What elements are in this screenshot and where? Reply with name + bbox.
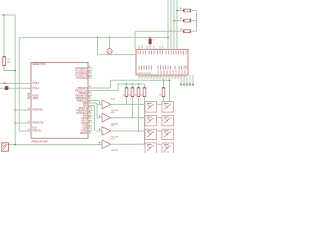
junction dot (132.5,117.7) <box>132 117 134 119</box>
crystal Q1 <box>5 86 8 90</box>
wire gate3 input stub <box>97 130 103 132</box>
gate IC2D triangle <box>102 140 111 149</box>
svg-text:74C07N: 74C07N <box>111 150 119 152</box>
wire IC1 left pin y131 <box>19 130 31 132</box>
IC1 right pin stub y118.0 <box>88 117 92 119</box>
wire R5 bottom lead to row 4 <box>144 96 146 144</box>
wire gate1 output <box>111 103 145 105</box>
IC3 bottom pin stub x166 <box>165 75 167 79</box>
svg-text:R1: R1 <box>7 59 9 61</box>
wire horizontal y70.5 <box>4 70 15 72</box>
IC IC3 body <box>136 49 188 75</box>
IC3 top pin name dashes <box>137 51 140 55</box>
wire pin y105.5 to gate3 <box>92 105 95 107</box>
svg-text:IC2B: IC2B <box>111 112 116 114</box>
connector SV1 pin 2 pad <box>183 84 185 86</box>
IC3 bottom pin stub x139 <box>138 75 140 79</box>
junction dot (171,31.2) <box>170 30 172 32</box>
svg-text:ATMEGA8-16PI: ATMEGA8-16PI <box>32 140 49 143</box>
wire R6 top lead <box>163 80 165 88</box>
IC3 bottom pin stub x178 <box>177 75 179 79</box>
wire net B from pin y90.5 <box>92 90 118 92</box>
connector SV1 pin 3 pad <box>186 84 188 86</box>
junction dot (126.5,104.4) <box>126 104 128 106</box>
wire net B bus y84 <box>118 83 145 85</box>
junction dot (97.5,37.4) <box>97 37 99 39</box>
IC1 left pin stub y96 <box>27 95 31 97</box>
IC1 right pin stub y108.0 <box>88 107 92 109</box>
svg-text:XTAL2: XTAL2 <box>32 87 40 90</box>
wire gate4 input stub <box>97 143 103 145</box>
junction dot (169.5,80.2) <box>169 79 171 81</box>
resistor R4 <box>137 88 140 97</box>
IC3 top pin stub x160 <box>159 46 161 50</box>
svg-text:1k: 1k <box>159 94 161 96</box>
wire pin y100.5 to gate1 <box>92 100 100 102</box>
wire XTAL2 y88.3 right <box>8 87 31 89</box>
wire between opto row1 <box>157 103 162 105</box>
wire between opto row4 <box>157 143 162 145</box>
junction dot (177,10.5) <box>176 10 178 12</box>
wire between opto row2 <box>157 117 162 119</box>
wire stub to oscillator <box>109 37 111 48</box>
IC3 bottom pin stub x151 <box>150 75 152 79</box>
svg-text:IC2A: IC2A <box>111 98 116 101</box>
wire R4 bottom lead to row 3 <box>138 96 140 131</box>
wire row1 right <box>190 10 196 12</box>
IC1 right pin numbers <box>89 66 90 67</box>
junction dot (163.5,80.2) <box>163 79 165 81</box>
junction dot (15.2,110) <box>14 109 16 111</box>
wire bottom long net y144.6 <box>8 144 102 146</box>
junction dot (109.5,37.4) <box>109 37 111 39</box>
IC3 bottom pin stub x148 <box>147 75 149 79</box>
IC1 right pin stub y120.5 <box>88 120 92 122</box>
opto OK6 right column <box>162 115 174 125</box>
opto OK5 right column <box>162 102 174 112</box>
resistor R3 <box>131 88 134 97</box>
wire between opto row3 <box>157 130 162 132</box>
svg-text:IC2C: IC2C <box>111 125 116 127</box>
wire gate2 input stub <box>97 117 103 119</box>
IC1 right pin stub y95.5 <box>88 95 92 97</box>
junction dot (15.2,70.5) <box>14 70 16 72</box>
wire vertical x135 to IC3 <box>134 31 136 49</box>
wire top vertical x177 <box>176 0 178 49</box>
wire XTAL2 y88.3 left <box>0 87 5 89</box>
svg-text:PD0(RXD): PD0(RXD) <box>32 110 43 112</box>
svg-text:PD4(T0): PD4(T0) <box>32 131 41 133</box>
IC1 right pin stub y103.0 <box>88 102 92 104</box>
wire oscillator bottom <box>109 53 111 56</box>
resistor R7 <box>184 9 191 12</box>
IC1 right pin stub y88.0 <box>88 87 92 89</box>
IC3 bottom pin stub x175 <box>174 75 176 79</box>
wire left stub opto row4 <box>141 143 146 145</box>
wire row2 right <box>190 20 196 22</box>
wire R4 top lead <box>138 84 140 88</box>
junction dot at (4,15) <box>3 14 5 16</box>
wire vertical x19.2 <box>18 37 20 131</box>
IC1 left pin numbers <box>28 94 29 95</box>
IC1 right pin stub y115.5 <box>88 115 92 117</box>
connector SV1 pin 4 pad <box>189 84 191 86</box>
junction dot (126.5,84) <box>126 83 128 85</box>
IC1 right pin stub y128.0 <box>88 127 92 129</box>
wire row2 left <box>174 20 184 22</box>
opto OK8 right column <box>162 143 174 153</box>
wire R6 bottom lead <box>163 96 165 101</box>
wire net A horizontal y80.2 <box>111 79 170 81</box>
wire left stub opto row1 <box>141 103 146 105</box>
IC1 right pin stub y110.5 <box>88 110 92 112</box>
opto OK3 left column <box>145 129 157 139</box>
junction dot (132.5,84) <box>132 83 134 85</box>
IC3 top pin stub x147 <box>146 46 148 50</box>
wire gate1 input stub <box>97 103 103 105</box>
IC3 bottom pin stub x160 <box>159 75 161 79</box>
IC1 right pin stub y78 <box>88 77 92 79</box>
wire bus y37.4 <box>19 36 168 38</box>
svg-text:PC4(SDA): PC4(SDA) <box>77 77 88 80</box>
IC3 bottom pin name dashes <box>138 66 141 70</box>
svg-text:(RESET)PC6: (RESET)PC6 <box>32 64 46 66</box>
IC IC1 body <box>31 62 88 138</box>
wire top vertical x168 <box>167 0 169 49</box>
IC3 top pin stub x163 <box>162 46 164 50</box>
connector SV1 pin 1 wire <box>180 75 182 84</box>
connector X1 body <box>2 143 9 151</box>
junction dot (174,20.6) <box>173 20 175 22</box>
svg-text:XTAL1: XTAL1 <box>32 82 40 85</box>
resistor R9 <box>184 30 191 33</box>
IC3 bottom pin stub x154 <box>153 75 155 79</box>
wire R2 top lead <box>126 84 128 88</box>
svg-text:C1: C1 <box>153 40 155 42</box>
IC1 right pin stub y130.5 <box>88 130 92 132</box>
svg-text:AREF: AREF <box>32 97 39 100</box>
IC3 bottom pin stub x163 <box>162 75 164 79</box>
resistor R8 <box>184 19 191 22</box>
wire IC1 left pin y110 <box>15 109 31 111</box>
wire vertical x97.5 <box>97 37 99 54</box>
junction dot (168,37.4) <box>167 37 169 39</box>
connector SV1 pin 2 wire <box>183 75 185 84</box>
opto OK2 left column <box>145 115 157 125</box>
resistor R1 <box>3 57 6 66</box>
svg-text:1k: 1k <box>129 94 131 96</box>
wire left stub opto row3 <box>141 130 146 132</box>
label tick Q1 <box>4 83 6 84</box>
IC1 right pin stub y90.5 <box>88 90 92 92</box>
IC1 right pin stub y105.5 <box>88 105 92 107</box>
junction dot (150,37.4) <box>149 37 151 39</box>
wire pin y103 to gate2 <box>92 102 97 104</box>
svg-text:10k: 10k <box>180 29 183 31</box>
IC1 right pin stub y123.0 <box>88 122 92 124</box>
resistor R5 <box>143 88 146 97</box>
IC1 right pin stub y93.0 <box>88 92 92 94</box>
wire R1 bottom lead <box>3 65 5 70</box>
wire net A vertical x110.5 <box>110 80 112 88</box>
connector SV1 pin 5 pad <box>192 84 194 86</box>
wire x169.5 down to opto1 top <box>169 80 171 102</box>
wire row1 left <box>177 10 184 12</box>
svg-text:1k: 1k <box>141 94 143 96</box>
IC1 left pin stub y93.5 <box>27 93 31 95</box>
wire gate4 output <box>111 143 145 145</box>
IC1 left pin stub y98.5 <box>27 98 31 100</box>
svg-text:1k: 1k <box>123 94 125 96</box>
wire R2 bottom lead to row 1 <box>126 96 128 104</box>
IC3 top pin stub x154 <box>153 46 155 50</box>
wire R3 top lead <box>132 84 134 88</box>
connector SV1 pin 1 pad <box>180 84 182 86</box>
wire gate2 output <box>111 117 145 119</box>
IC3 bottom pin name dashes row2 <box>157 70 160 73</box>
IC3 top pin stub x139 <box>138 46 140 50</box>
wire top vertical x174 <box>173 0 175 49</box>
wire stub below opto8 <box>162 151 169 153</box>
wire net A from pin y88 <box>92 87 111 89</box>
wire R3 bottom lead to row 2 <box>132 96 134 117</box>
IC3 bottom pin stub x145 <box>144 75 146 79</box>
svg-text:10k: 10k <box>180 18 183 20</box>
gate IC2C triangle <box>102 127 111 136</box>
wire row3 right <box>190 30 196 32</box>
svg-text:PD3: PD3 <box>32 128 37 130</box>
svg-text:10k: 10k <box>7 62 10 64</box>
junction dot (138.5,131.0) <box>138 130 140 132</box>
wire row3 long left extension <box>135 30 171 32</box>
junction dot (138.5,84) <box>138 83 140 85</box>
wire bus y54.6 <box>98 54 137 56</box>
IC1 right pin stub y113.0 <box>88 112 92 114</box>
svg-text:1k: 1k <box>135 94 137 96</box>
wire vertical to R1 <box>3 15 5 57</box>
resistor R6 <box>162 88 165 97</box>
wire C1 top lead <box>149 37 151 38</box>
opto OK7 right column <box>162 129 174 139</box>
connector SV1 pin 4 wire <box>189 75 191 84</box>
IC3 top pin stub x142 <box>141 46 143 50</box>
gate IC2A triangle <box>102 100 111 109</box>
wire IC1 left pin y123 <box>15 122 31 124</box>
wire net top-left horizontal <box>1 14 15 16</box>
gate IC2B triangle <box>102 113 111 122</box>
connector X1 inner marks <box>3 144 8 150</box>
wire right vertical x196.5 <box>196 11 198 32</box>
IC3 bottom pin stub x169 <box>168 75 170 79</box>
junction dot (15.2,144.6) <box>14 144 16 146</box>
wire gate3 output <box>111 130 145 132</box>
IC1 right pin stub y100.5 <box>88 100 92 102</box>
wire left stub opto row2 <box>141 117 146 119</box>
wire row3 left <box>171 30 184 32</box>
wire XTAL1 y83.4 <box>0 82 31 84</box>
opto OK1 left column <box>145 102 157 112</box>
IC1 right pin stub y98.0 <box>88 97 92 99</box>
wire top vertical x171 <box>170 0 172 49</box>
svg-text:PD2(INT0): PD2(INT0) <box>32 123 43 125</box>
IC1 right pin stub y133.0 <box>88 132 92 134</box>
capacitor C1 <box>149 39 152 45</box>
connector SV1 pin 3 wire <box>186 75 188 84</box>
IC3 bottom pin stub x142 <box>141 75 143 79</box>
opto OK4 left column <box>145 143 157 153</box>
IC1 right pin stub y68 <box>88 67 92 69</box>
svg-text:IC2D: IC2D <box>111 139 116 141</box>
svg-text:10k: 10k <box>180 8 183 10</box>
IC1 right pin stub y75.5 <box>88 75 92 77</box>
IC3 bottom pin stub x157 <box>156 75 158 79</box>
wire net B vertical x118 <box>117 84 119 91</box>
IC1 right pin stub y73 <box>88 72 92 74</box>
svg-text:AREF2: AREF2 <box>80 132 88 135</box>
oscillator Q2 circle <box>107 49 112 54</box>
junction dot (144.5,144.3) <box>144 144 146 146</box>
resistor R2 <box>125 88 128 97</box>
wire R5 top lead <box>144 84 146 88</box>
IC3 bottom pin stub x172 <box>171 75 173 79</box>
IC1 right pin stub y70.5 <box>88 70 92 72</box>
junction dot (15.2,123) <box>14 122 16 124</box>
IC3 pin numbers below edge <box>139 76 142 78</box>
svg-text:MAX7219CNG: MAX7219CNG <box>138 72 152 75</box>
wire long vertical x15.2 <box>14 15 16 145</box>
IC1 right pin stub y125.5 <box>88 125 92 127</box>
connector SV1 pin 5 wire <box>192 75 194 84</box>
wire C1 bottom lead <box>149 44 151 49</box>
